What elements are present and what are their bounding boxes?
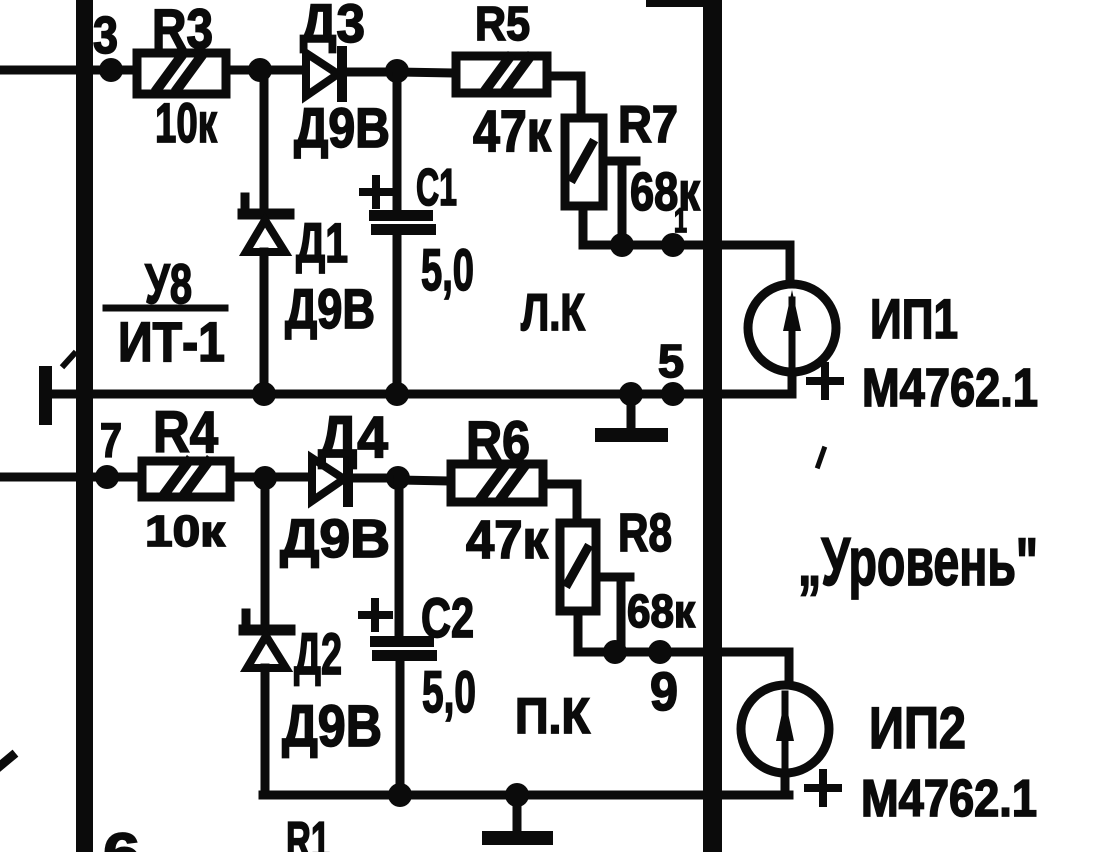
capacitor C2	[370, 636, 437, 661]
node 5 junction	[661, 382, 685, 406]
resistor R3	[137, 53, 226, 94]
junction ground row2	[505, 783, 529, 807]
tick near terminal 1	[64, 354, 74, 365]
svg-text:ИП2: ИП2	[869, 696, 966, 761]
IP1 bottom lead wire	[788, 372, 797, 394]
svg-text:68к: 68к	[630, 162, 701, 222]
wire node to R6	[398, 480, 451, 481]
R8 wiper down wire	[617, 577, 626, 652]
svg-text:П.К: П.К	[515, 688, 590, 744]
plus sign of C1	[363, 179, 390, 205]
svg-text:ИП1: ИП1	[870, 287, 958, 350]
meter IP1	[748, 284, 836, 372]
svg-text:5: 5	[658, 335, 684, 387]
node 7 junction	[95, 465, 119, 489]
node 1 junction	[661, 233, 685, 257]
svg-text:Л.К: Л.К	[521, 284, 585, 342]
junction node after R3	[248, 58, 272, 82]
variable resistor R7	[565, 118, 603, 206]
capacitor C1	[369, 210, 436, 235]
left margin tick	[0, 756, 12, 766]
svg-text:5,0: 5,0	[422, 660, 476, 725]
wire R6 to R8 top	[543, 484, 577, 523]
resistor R5	[456, 56, 547, 93]
svg-text:ИТ-1: ИТ-1	[118, 310, 225, 373]
junction node C1 top	[385, 59, 409, 83]
junction ground row1	[619, 382, 643, 406]
wire node 1 to meter IP1	[622, 241, 790, 250]
wire node to zener D2	[261, 478, 270, 624]
wire down to meter IP1	[786, 245, 795, 288]
svg-text:М4762.1: М4762.1	[862, 358, 1038, 418]
ground symbol row1	[602, 394, 661, 435]
wire R5 to R7 top	[547, 76, 581, 118]
svg-text:Д2: Д2	[294, 622, 342, 687]
IP2 bottom lead wire	[781, 773, 790, 795]
plus sign of C2	[362, 602, 389, 628]
svg-text:С1: С1	[416, 159, 457, 217]
terminal 1 end bar	[39, 366, 52, 425]
node 3 junction	[99, 58, 123, 82]
svg-text:Д3: Д3	[300, 0, 365, 54]
zener diode D1	[243, 197, 289, 252]
resistor R4	[142, 461, 230, 497]
svg-text:М4762.1: М4762.1	[861, 770, 1037, 828]
bottom wire row2	[263, 791, 789, 800]
svg-text:3: 3	[93, 7, 118, 65]
capacitor C2 bottom lead wire	[396, 661, 405, 795]
junction C1 at bus	[385, 382, 409, 406]
unit designator U8 over IT-1	[106, 252, 225, 373]
left vertical bus	[76, 0, 93, 852]
wire zener D1 to ground bus	[260, 252, 269, 394]
svg-text:R8: R8	[618, 503, 672, 563]
ground symbol row2	[489, 795, 546, 838]
svg-text:R3: R3	[152, 0, 213, 60]
svg-text:1: 1	[674, 202, 687, 240]
diode D4	[312, 456, 398, 502]
svg-text:R5: R5	[475, 0, 530, 51]
junction node C2 top	[386, 466, 410, 490]
svg-text:„Уровень": „Уровень"	[798, 524, 1038, 600]
svg-text:R7: R7	[618, 96, 678, 154]
wire down to meter IP2	[785, 652, 794, 688]
R8 wiper tap wire	[596, 573, 630, 582]
R7 bottom lead wire	[583, 206, 622, 245]
svg-text:68к: 68к	[627, 585, 696, 637]
node 9 junction	[648, 640, 672, 664]
junction C2 at bottom wire	[388, 783, 412, 807]
right vertical bus	[703, 0, 722, 852]
capacitor C1 bottom lead wire	[393, 235, 402, 394]
wire input row2 to node 7	[0, 473, 310, 482]
wire stub at top edge	[646, 0, 712, 7]
svg-text:47к: 47к	[473, 99, 552, 164]
meter IP2	[741, 685, 829, 773]
wire input row1 to node 3	[0, 66, 304, 75]
diode D3	[306, 51, 400, 97]
svg-text:10к: 10к	[145, 507, 226, 556]
plus sign of IP1	[810, 366, 840, 396]
svg-text:10к: 10к	[155, 91, 218, 154]
zener diode D2	[244, 613, 290, 668]
svg-text:Д9В: Д9В	[294, 96, 390, 159]
svg-text:Д9В: Д9В	[282, 694, 382, 759]
variable resistor R8	[560, 523, 596, 611]
svg-text:Д9В: Д9В	[285, 277, 375, 340]
svg-text:47к: 47к	[466, 510, 549, 570]
wire zener D2 to bottom wire	[261, 668, 270, 795]
junction zener D1 at bus	[252, 382, 276, 406]
plus sign of IP2	[808, 773, 838, 803]
capacitor C1 top lead wire	[393, 71, 402, 210]
wire node to R5	[397, 72, 456, 73]
wire node to zener D1	[260, 70, 269, 208]
R7 wiper down wire	[618, 161, 627, 245]
svg-text:7: 7	[100, 415, 122, 468]
svg-text:R6: R6	[466, 409, 530, 472]
junction R7 bottom	[610, 233, 634, 257]
capacitor C2 top lead wire	[395, 478, 404, 637]
svg-text:R1: R1	[286, 812, 330, 852]
R7 wiper tap wire	[603, 157, 636, 166]
apostrophe mark above caption	[818, 449, 824, 466]
svg-text:5,0: 5,0	[421, 238, 474, 303]
junction node after R4	[253, 466, 277, 490]
svg-text:С2: С2	[421, 586, 474, 649]
svg-text:9: 9	[650, 662, 678, 722]
junction R8 bottom	[603, 640, 627, 664]
R8 bottom lead wire	[578, 611, 615, 652]
svg-text:Д1: Д1	[296, 211, 348, 274]
svg-text:R4: R4	[153, 400, 218, 465]
svg-text:6: 6	[103, 821, 140, 852]
svg-text:Д4: Д4	[318, 405, 388, 470]
ground bus wire row1	[47, 390, 792, 399]
resistor R6	[451, 464, 543, 502]
svg-text:Д9В: Д9В	[280, 509, 390, 569]
wire node 9 to meter IP2	[615, 648, 789, 657]
